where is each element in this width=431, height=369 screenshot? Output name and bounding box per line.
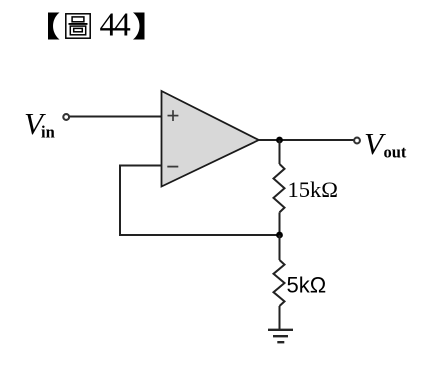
- title bracket right 】: [133, 13, 145, 40]
- svg-text:in: in: [41, 123, 55, 142]
- input terminal (open circle): [63, 114, 69, 120]
- resistor R1 15k zigzag: [274, 164, 285, 212]
- svg-text:15kΩ: 15kΩ: [288, 177, 338, 202]
- wire divider node down to R2: [279, 235, 281, 260]
- title glyph 圖 (hand-drawn CJK): [66, 14, 90, 38]
- wire feedback: - input left, down, right to divider node: [120, 166, 280, 236]
- node: divider junction dot: [276, 232, 283, 239]
- svg-text:out: out: [384, 143, 407, 162]
- resistor R2 5k zigzag: [274, 260, 285, 306]
- wire R1 to divider node: [279, 212, 281, 235]
- node: output junction dot: [276, 137, 283, 144]
- op-amp - symbol: [167, 166, 178, 168]
- title bracket left 【: [48, 13, 60, 40]
- ground symbol: [268, 330, 293, 342]
- wire R2 to ground: [279, 306, 281, 330]
- wire op-amp output to Vout terminal: [259, 139, 354, 141]
- op-amp U1 triangle: [162, 91, 259, 187]
- op-amp + symbol: [168, 110, 179, 121]
- wire output node down to R1: [279, 140, 281, 164]
- svg-text:5kΩ: 5kΩ: [287, 273, 327, 298]
- output terminal (open circle): [354, 138, 360, 144]
- svg-text:44: 44: [100, 7, 132, 44]
- wire Vin to op-amp + input: [70, 116, 162, 118]
